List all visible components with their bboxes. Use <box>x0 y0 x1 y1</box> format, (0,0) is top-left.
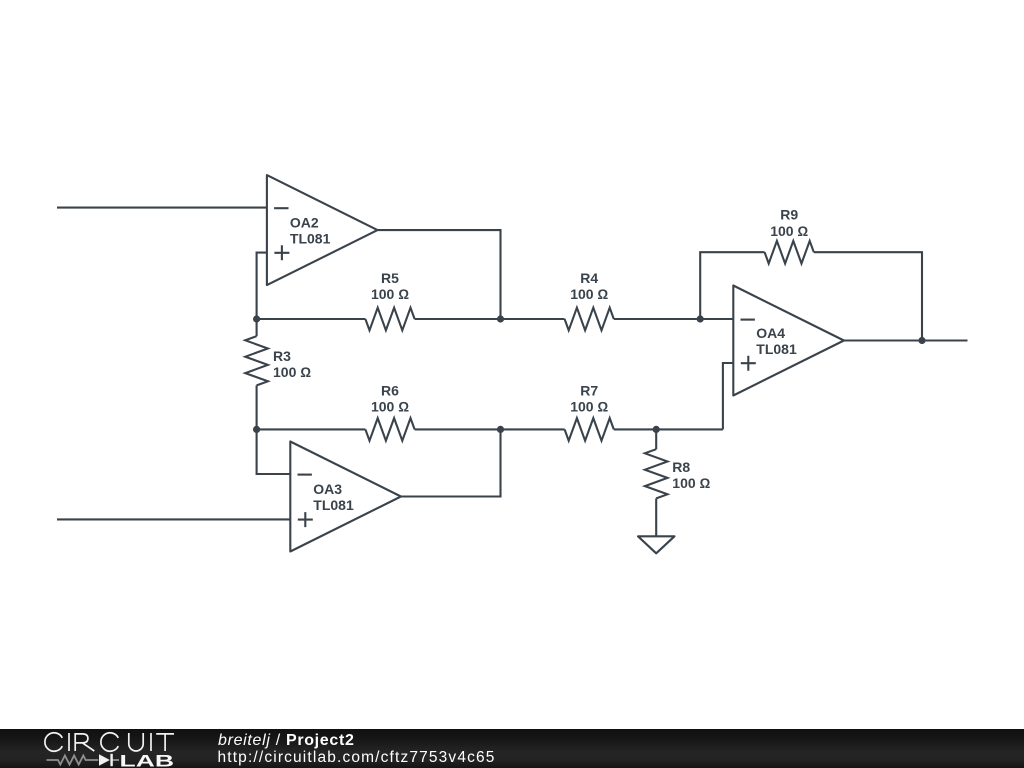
op-amp OA4 plus mark <box>741 356 756 371</box>
node B junction dot <box>497 315 504 322</box>
node D junction dot <box>253 426 260 433</box>
svg-text:TL081: TL081 <box>290 231 331 247</box>
wire: R6 right lead to node F <box>415 428 501 430</box>
op-amp OA2 triangle <box>267 175 378 285</box>
node F junction dot <box>497 426 504 433</box>
logo letter T <box>156 734 174 751</box>
wire: input to OA2 inverting input <box>57 207 267 209</box>
svg-text:R7: R7 <box>580 382 598 398</box>
svg-text:R9: R9 <box>780 207 798 223</box>
caption: url <box>218 749 496 767</box>
node A junction dot <box>253 315 260 322</box>
caption: user / project <box>218 732 355 750</box>
svg-text:100 Ω: 100 Ω <box>273 364 311 380</box>
op-amp OA3 plus mark <box>298 512 313 527</box>
ground symbol <box>638 536 675 553</box>
op-amp OA2 plus mark <box>274 245 289 260</box>
op-amp OA3 triangle <box>290 442 401 552</box>
resistor R5 zigzag <box>365 308 414 331</box>
svg-text:OA3: OA3 <box>313 481 342 497</box>
wire: node B to R4 left lead <box>501 318 565 320</box>
svg-text:LAB: LAB <box>120 751 175 768</box>
resistor R3 zigzag <box>245 336 268 385</box>
op-amp OA2 minus mark <box>274 207 288 209</box>
wire: R3 bottom lead to node D <box>256 385 258 429</box>
wire: OA4 output to right edge <box>844 339 968 341</box>
wire: node A down to R3 top lead <box>256 319 258 336</box>
logo diode glyph <box>99 754 113 766</box>
wire: node D down to OA3 inverting input <box>257 429 291 474</box>
svg-text:OA4: OA4 <box>756 325 785 341</box>
node G junction dot <box>653 426 660 433</box>
svg-text:R5: R5 <box>381 270 399 286</box>
resistor R6 zigzag <box>365 418 414 441</box>
svg-text:TL081: TL081 <box>313 497 354 513</box>
svg-text:100 Ω: 100 Ω <box>672 475 710 491</box>
svg-text:100 Ω: 100 Ω <box>371 286 409 302</box>
logo letter R <box>75 734 94 751</box>
wire: R7 right lead through node G rightward <box>614 428 723 430</box>
footer bar <box>0 729 1024 768</box>
svg-text:R6: R6 <box>381 382 399 398</box>
wire: OA3 output up to node F <box>401 429 501 496</box>
wire: node D to R6 left lead <box>257 428 366 430</box>
wire: OA4 non-inverting input down to lower row <box>723 363 733 429</box>
node E junction dot <box>918 337 925 344</box>
wire: node G to R8 top lead <box>655 429 657 449</box>
svg-text:OA2: OA2 <box>290 215 319 231</box>
CircuitLab logo <box>1 729 201 768</box>
logo resistor glyph <box>47 756 99 765</box>
op-amp OA4 minus mark <box>741 319 755 321</box>
op-amp OA3 minus mark <box>298 474 312 476</box>
svg-text:R8: R8 <box>672 459 690 475</box>
svg-text:100 Ω: 100 Ω <box>371 399 409 415</box>
wire: R4 right lead through node C to OA4 inverting input <box>614 318 734 320</box>
wire: node A to R5 left lead <box>257 318 366 320</box>
wire: R5 right lead to node B <box>415 318 501 320</box>
op-amp OA4 triangle <box>733 286 844 396</box>
wire: node F to R7 left lead <box>501 428 565 430</box>
logo letter C2 <box>101 733 118 751</box>
wire: OA2 non-inverting input down to node A <box>257 253 267 319</box>
svg-text:R4: R4 <box>580 270 598 286</box>
wire: R8 bottom lead to ground <box>655 498 657 536</box>
logo letter U <box>129 733 143 751</box>
logo letter C <box>45 733 62 751</box>
wire: node C up to R9 left lead <box>700 252 764 319</box>
svg-text:TL081: TL081 <box>756 341 797 357</box>
logo wire after diode <box>113 759 120 761</box>
svg-text:100 Ω: 100 Ω <box>570 399 608 415</box>
resistor R4 zigzag <box>565 308 614 331</box>
resistor R7 zigzag <box>565 418 614 441</box>
resistor R8 zigzag <box>645 449 668 498</box>
svg-text:100 Ω: 100 Ω <box>570 286 608 302</box>
wire: input to OA3 non-inverting input <box>57 518 290 520</box>
svg-text:R3: R3 <box>273 348 291 364</box>
node C junction dot <box>697 315 704 322</box>
wire: R9 right lead down to output node E <box>814 252 922 340</box>
wire: OA2 output to node B <box>378 230 501 319</box>
logo letter I <box>68 733 70 751</box>
resistor R9 zigzag <box>765 241 814 264</box>
svg-text:100 Ω: 100 Ω <box>770 223 808 239</box>
logo letter I2 <box>150 733 152 751</box>
